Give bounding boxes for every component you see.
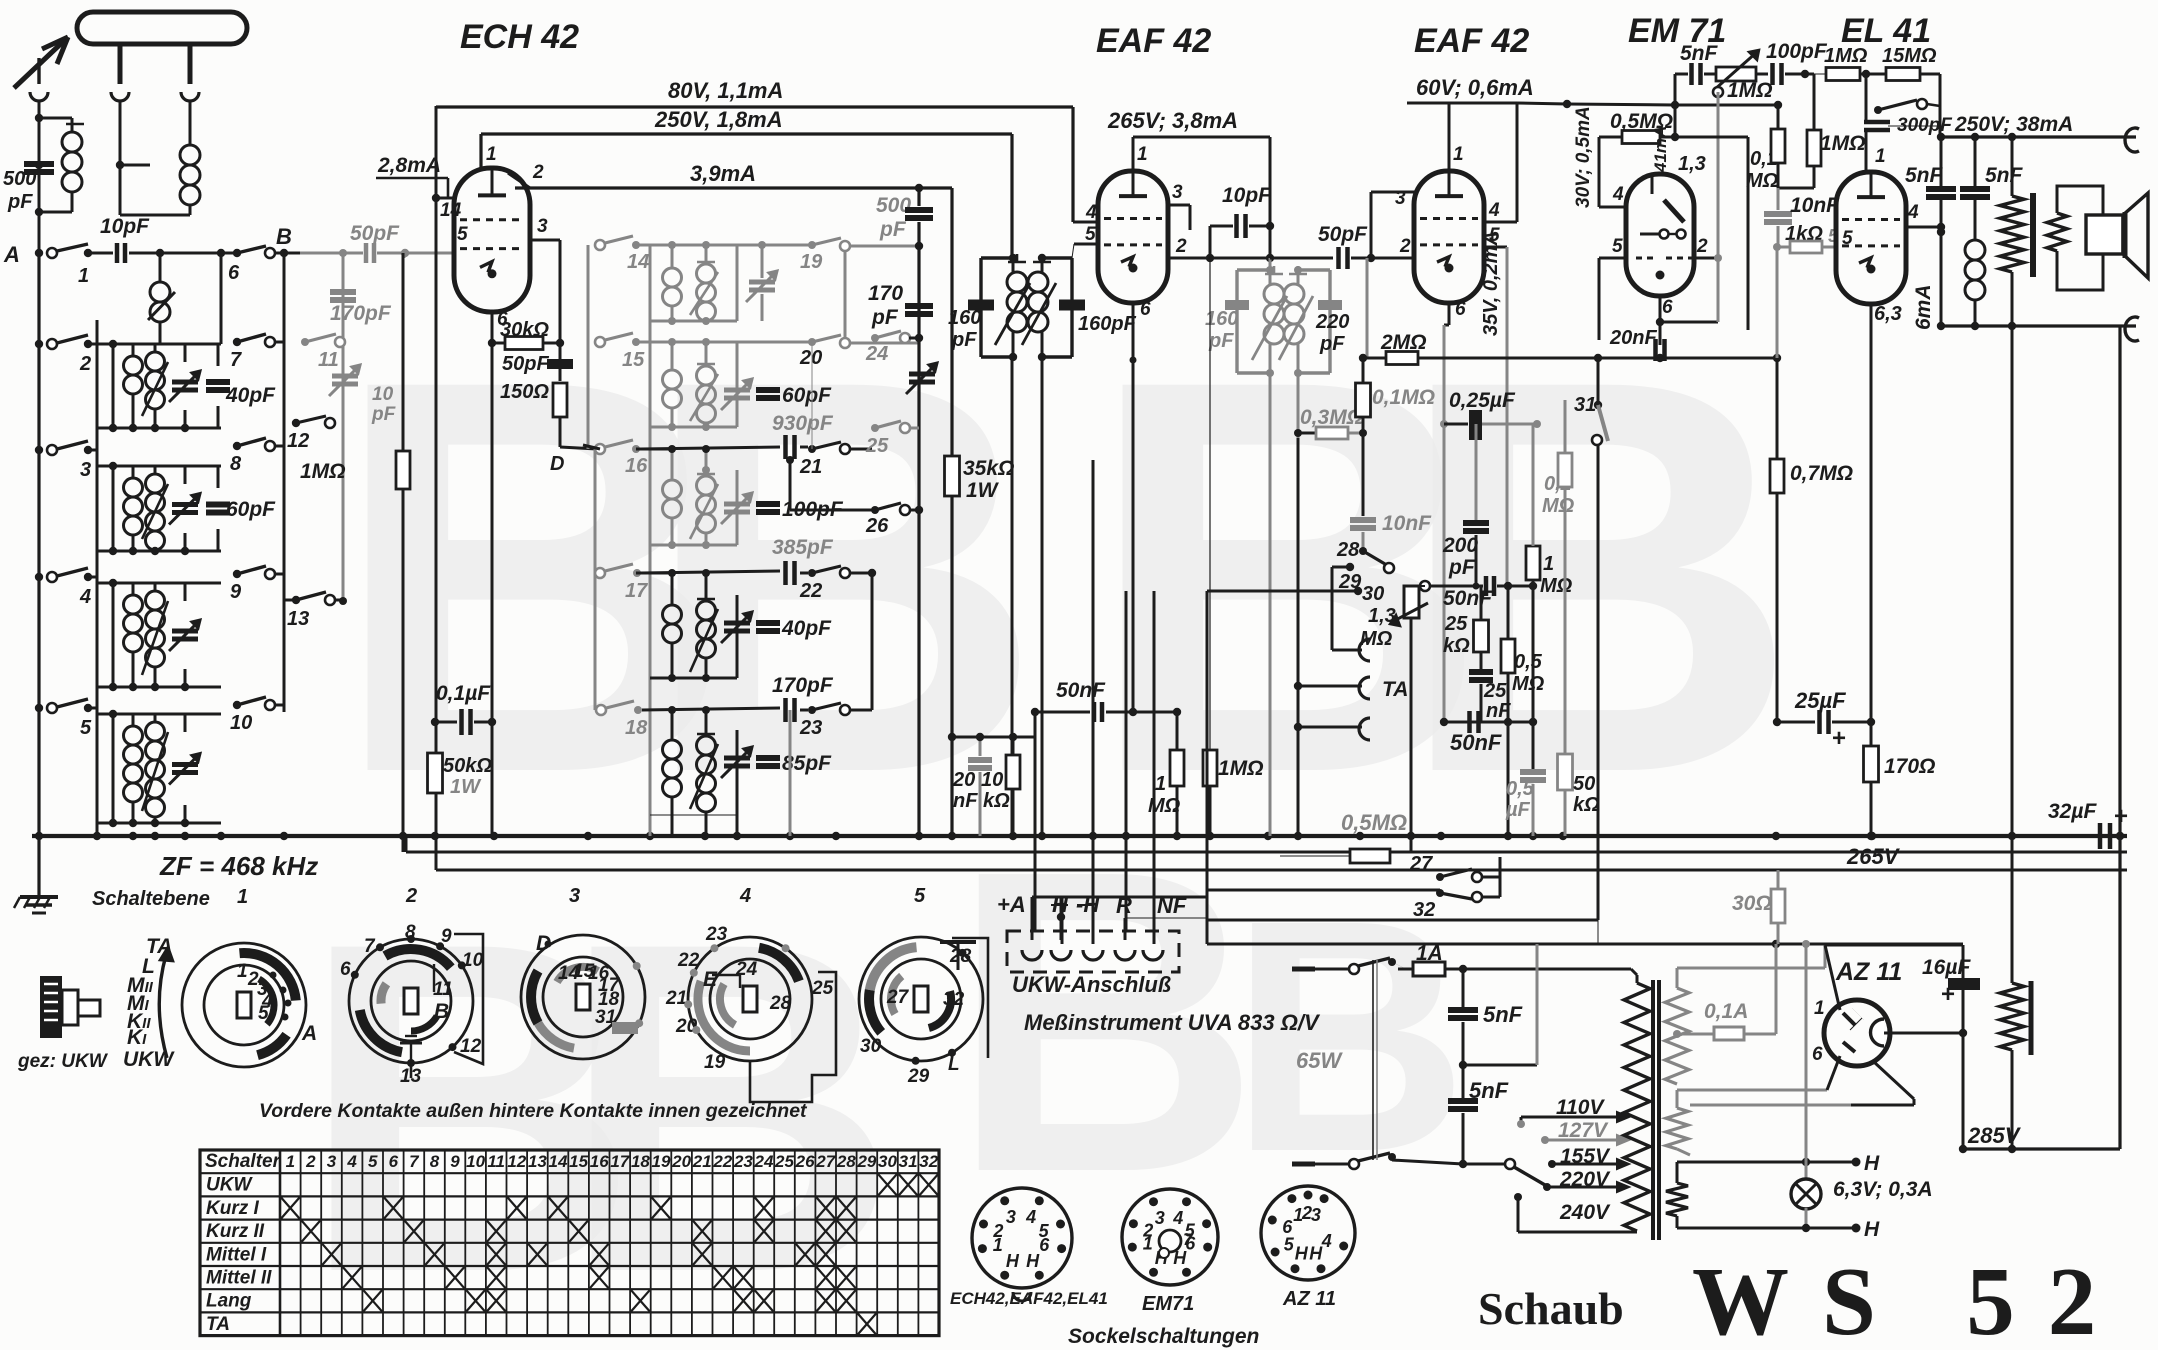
svg-text:TA: TA [206,1314,230,1335]
label Schaltebene [92,886,248,910]
svg-text:10pF: 10pF [100,215,150,238]
svg-text:ECH42,EAF42,EL41: ECH42,EAF42,EL41 [950,1289,1108,1308]
svg-text:6,3V; 0,3A: 6,3V; 0,3A [1833,1178,1933,1201]
svg-text:0,7MΩ: 0,7MΩ [1790,462,1853,485]
tube EAF42 second [1414,171,1484,303]
svg-text:32: 32 [919,1152,938,1171]
transformer IF1 [981,254,1072,361]
capacitor 50pF cathode [502,343,573,381]
node B [275,224,300,257]
coil L1 antenna [39,118,84,212]
svg-text:UKW-Anschluß: UKW-Anschluß [1012,972,1171,997]
pin 14 [432,194,462,221]
coil tone [1965,240,1985,326]
resistor 1MOhm osc [300,253,410,852]
capacitor 160pF IF1 left [948,300,994,352]
knob gez UKW [17,976,109,1072]
svg-text:H: H [1295,1244,1309,1264]
wire EM71 top row [1567,101,1777,109]
svg-text:1: 1 [1814,998,1825,1019]
label 60V 0,6mA [1416,75,1534,100]
svg-text:6: 6 [1812,1044,1823,1065]
svg-text:1MΩ: 1MΩ [1824,45,1868,67]
svg-text:4: 4 [1085,202,1097,223]
pin 5 ECH42 [457,224,468,245]
svg-text:28: 28 [836,1152,856,1171]
switch contact 4 [35,568,97,608]
svg-text:10nF: 10nF [1790,194,1840,217]
wire IF2 legs [1270,373,1298,836]
switch contact 8 [230,438,284,475]
pin 2 EAF42b [1399,236,1411,257]
transformer heater main [1666,1162,1806,1228]
resistor 0,5MOhm vert [1501,586,1545,836]
resistor 1MOhm grid [1805,45,1886,81]
svg-text:6: 6 [228,262,240,284]
capacitor 160pF IF2 [1205,300,1249,352]
svg-text:22: 22 [677,950,700,971]
tube EL41 [1836,172,1906,304]
label +A [997,892,1026,917]
trimmer padder [906,363,937,394]
svg-text:1: 1 [1155,773,1166,795]
switch contact 20 [799,251,919,369]
capacitor 5nF psu1 [1448,969,1523,1069]
svg-text:30: 30 [1362,583,1384,605]
svg-text:5: 5 [258,1003,269,1024]
coil IF module 4 [636,569,737,836]
svg-text:7: 7 [409,1152,420,1171]
resistor 1MOhm det a [1148,712,1184,836]
svg-text:14: 14 [627,251,649,273]
label 265V 3,8mA [1107,108,1238,133]
svg-text:6: 6 [340,959,351,980]
coil IF module 2 [636,338,812,547]
svg-text:220: 220 [1315,311,1349,333]
svg-text:3: 3 [327,1152,337,1171]
trimmer module1 [746,241,777,321]
capacitor 60pF IF [721,379,832,410]
svg-text:0,1µF: 0,1µF [436,682,491,705]
switch contact 14 [595,236,649,273]
svg-text:10nF: 10nF [1382,512,1432,535]
svg-text:B: B [276,224,292,249]
label ZF [159,851,318,881]
svg-text:Mittel I: Mittel I [206,1244,267,1265]
svg-text:pF: pF [7,191,33,213]
svg-text:150Ω: 150Ω [500,381,549,403]
label 65W [1296,1048,1343,1073]
svg-text:MΩ: MΩ [1512,673,1545,695]
wire 80V bus [436,78,1073,222]
capacitor 200pF [1442,424,1489,590]
svg-text:4: 4 [1172,1208,1183,1228]
svg-text:17: 17 [610,1152,630,1171]
svg-text:4: 4 [1907,202,1919,223]
pin 3 ECH42 [530,216,560,305]
capacitor 25nF [1469,669,1511,722]
band module K2 coils [97,579,221,691]
svg-text:26: 26 [865,515,889,537]
wire gray 1806 [1802,940,1810,1162]
switch contact 12 [287,416,335,452]
switch contact 15 [595,333,645,371]
pin labels AZ11 [1812,998,1825,1065]
socket AZ11 [1261,1186,1355,1280]
capacitor 500pF antenna [3,161,54,213]
switch mains bottom [1349,1153,1463,1169]
capacitor 50pF coupling2 [1270,223,1415,269]
svg-text:500: 500 [3,168,36,190]
wire mains link [1373,960,1377,1160]
lamp 6,3V [1791,1162,1933,1232]
svg-text:1W: 1W [450,776,482,798]
svg-text:1: 1 [1453,144,1464,165]
antenna symbol [14,37,68,88]
svg-text:6: 6 [1455,299,1466,320]
decor [300,263,1799,1350]
svg-text:25: 25 [811,978,834,999]
wire TA vertical [1297,438,1300,836]
switch contact 6 [228,246,275,284]
hook right top [2125,128,2139,152]
potentiometer 1,3MOhm [1360,581,1430,852]
wire A row [88,252,113,255]
rotary dial 4 [665,924,976,1102]
svg-text:10: 10 [466,1152,485,1171]
svg-text:5: 5 [1085,224,1096,245]
capacitor 170pF IF [642,674,834,722]
coil IF module 1 [636,241,812,425]
capacitor 10nF EL41 [1764,188,1840,247]
svg-text:16: 16 [590,1152,609,1171]
svg-text:30V; 0,5mA: 30V; 0,5mA [1573,106,1594,208]
wire mid verticals [1035,460,1154,944]
label band list [123,935,175,1071]
label 41mA [1651,126,1670,173]
svg-text:285V: 285V [1967,1123,2022,1148]
switch contact 17 [595,564,648,602]
svg-text:Meßinstrument UVA 833 Ω/V: Meßinstrument UVA 833 Ω/V [1024,1010,1321,1035]
capacitor 50nF lower [1440,711,1537,755]
voltage selector [1463,1159,1551,1191]
wire EM71 pin4 [1599,137,1626,207]
resistor 2MOhm [1359,331,1781,365]
switch contact 26 [786,456,923,537]
svg-text:UKW: UKW [123,1048,175,1071]
svg-text:5: 5 [368,1152,378,1171]
svg-text:240V: 240V [1559,1201,1611,1224]
switch contact 1 [47,244,92,287]
svg-text:4: 4 [1612,184,1624,205]
svg-text:60pF: 60pF [782,384,832,407]
svg-text:20nF: 20nF [1609,327,1657,349]
svg-text:H: H [1864,1218,1880,1241]
capacitor 85pF [721,747,832,778]
svg-text:30: 30 [860,1036,882,1057]
svg-text:60V; 0,6mA: 60V; 0,6mA [1416,75,1534,100]
pin 4 EAF42a [1073,202,1099,223]
wire bottom rail out [1937,322,2136,330]
svg-text:0,3MΩ: 0,3MΩ [1300,406,1363,429]
resistor 1MOhm EL41 [1805,74,1866,188]
svg-text:11: 11 [318,349,339,371]
tap 220V [1547,1168,1629,1192]
svg-text:265V: 265V [1846,844,1901,869]
svg-text:EAF 42: EAF 42 [1414,22,1529,60]
svg-text:1: 1 [1543,553,1554,575]
svg-text:L: L [948,1054,960,1075]
resistor output zigzag [2000,137,2024,326]
svg-text:12: 12 [287,430,309,452]
node 30 [1207,583,1384,605]
svg-text:50: 50 [1573,773,1595,795]
capacitor 50pF grid [350,222,400,263]
svg-text:930pF: 930pF [772,412,834,435]
EM71 internals [1636,174,1692,280]
svg-text:nF: nF [953,790,978,812]
svg-text:24: 24 [754,1152,774,1171]
svg-text:15: 15 [569,1152,588,1171]
tube label EL41 [1841,12,1931,50]
wire EM71 pin5 [1599,236,1626,340]
svg-text:1: 1 [78,265,89,287]
transformer core bar [2030,193,2036,277]
coil L2 dipole [116,100,200,215]
svg-text:29: 29 [907,1066,930,1087]
wire pin5 stub [404,253,406,258]
tube label EAF42 second [1414,22,1529,60]
svg-text:4: 4 [1488,200,1500,221]
svg-text:25: 25 [1444,613,1468,635]
svg-text:ECH 42: ECH 42 [460,18,579,56]
pin 5 EL41 [1842,228,1853,249]
label socket EM71 [1142,1293,1194,1315]
svg-text:0,1A: 0,1A [1704,1000,1748,1023]
title WS 52 [1692,1248,2129,1350]
band module Mittel coils [97,462,230,555]
svg-text:1: 1 [1137,144,1148,165]
svg-text:13: 13 [528,1152,547,1171]
svg-text:2,8mA: 2,8mA [377,154,441,177]
resistor 35kOhm 1W [945,456,1015,836]
capacitor 500pF [876,188,933,836]
wire AZ11 fil return [1690,1056,1914,1105]
capacitor 40pF IF [721,612,832,643]
svg-text:pF: pF [1208,330,1234,352]
wire 2.8mA vert [435,106,438,870]
svg-text:25: 25 [1483,680,1507,702]
svg-text:4: 4 [79,586,91,608]
switch contact 25 [812,342,919,457]
transformer IF2 [1237,258,1330,377]
dipole antenna T [77,12,247,84]
svg-text:E: E [703,968,718,991]
capacitor 0,1uF [431,682,496,735]
resistor 50kOhm 1W [428,753,493,798]
hook TA lower [1294,718,1370,740]
svg-text:0,5: 0,5 [1514,651,1543,673]
tube label EM71 [1628,12,1726,50]
capacitor 20nF det [952,737,992,836]
rotary dial 1 [182,943,317,1067]
transformer heater AZ11 [1666,1090,1827,1155]
svg-text:25: 25 [774,1152,794,1171]
svg-text:50pF: 50pF [350,222,400,245]
dipole hook right [181,92,199,101]
wire 250V bus right [1937,113,2136,141]
label Messinstrument [1024,1010,1321,1035]
svg-text:29: 29 [856,1152,876,1171]
wire 50pF to tube [377,249,452,257]
wire pin3 join [559,240,562,343]
svg-text:27: 27 [1409,853,1433,875]
wire 60V line [1517,100,1571,108]
svg-text:5nF: 5nF [1469,1078,1509,1103]
svg-text:25µF: 25µF [1794,688,1846,713]
resistor 0,1MOhm upper [1356,358,1436,516]
svg-text:D: D [550,453,564,475]
label ebene 4 [739,885,751,907]
wire left vertical A [37,253,40,836]
capacitor 10pF coupling [1210,184,1274,258]
svg-text:30Ω: 30Ω [1732,892,1772,915]
pin 6,3 EL41 [1871,303,1902,745]
svg-text:Kurz II: Kurz II [206,1221,265,1242]
svg-text:3,9mA: 3,9mA [690,161,756,186]
transformer HV secondary [1665,945,1825,1084]
svg-text:11: 11 [487,1152,505,1171]
UKW terminals [1022,950,1163,960]
svg-text:9: 9 [450,1152,460,1171]
svg-text:6: 6 [1039,1235,1050,1255]
svg-text:2: 2 [1696,236,1708,257]
svg-text:250V; 38mA: 250V; 38mA [1954,113,2073,136]
pin 2 EAF42a [1168,236,1274,262]
wire left vertical 2 [96,320,99,836]
label Sockelschaltungen [1068,1325,1259,1348]
speaker frame [2057,186,2103,290]
resistor 10kOhm det [948,733,1035,836]
svg-text:gez: UKW: gez: UKW [17,1051,109,1072]
pin 6 EAF42a [1129,299,1151,716]
pin 5 EAF42b [1484,225,1507,586]
svg-text:265V; 3,8mA: 265V; 3,8mA [1107,108,1238,133]
wire to osc coil node [129,249,233,257]
wire +A up [1032,897,1207,940]
tap 127V [1541,1119,1629,1145]
svg-text:3: 3 [80,459,91,481]
svg-text:pF: pF [951,329,977,351]
svg-text:30: 30 [878,1152,897,1171]
svg-text:32µF: 32µF [2048,800,2097,823]
wire IF1 feed [1012,357,1042,836]
svg-text:Sockelschaltungen: Sockelschaltungen [1068,1325,1259,1348]
tap 240V [1514,1193,1637,1232]
svg-text:7: 7 [364,936,376,957]
svg-text:3: 3 [1155,1208,1165,1228]
capacitor 5nF EM71 [1675,42,1719,105]
speaker [2086,193,2148,278]
rotary dial 5 [859,937,988,1087]
terminal H upper [1802,1152,1880,1175]
resistor bleeder [2000,836,2031,1149]
band module Kurz coils [97,340,230,432]
switch contact 28 [1336,539,1394,573]
wire cathode vert [491,343,494,836]
svg-text:170pF: 170pF [330,302,392,325]
svg-text:+: + [1941,981,1955,1008]
capacitor 5nF out1 [1905,137,1956,326]
capacitor 300pF [1864,110,1953,173]
svg-text:6: 6 [1662,297,1673,318]
svg-text:50pF: 50pF [1318,223,1368,246]
pin 4 EL41 [1906,202,1945,231]
capacitor 930pF [641,412,834,459]
capacitor 16uF [1922,945,1980,1149]
transformer core [1653,980,1659,1240]
label 35V 0,2mA [1480,231,1502,336]
svg-text:8: 8 [430,1152,440,1171]
svg-text:pF: pF [1319,333,1345,355]
svg-text:1: 1 [237,961,248,982]
resistor 0,2MOhm [1542,400,1575,755]
svg-text:32: 32 [943,989,965,1010]
band module Lang coils [97,710,221,827]
wire 5nF tap [1463,944,1537,1065]
wire bank left rail [588,245,595,710]
resistor 0,3MOhm [1294,406,1367,439]
svg-text:3: 3 [1172,182,1183,203]
svg-text:100pF: 100pF [1766,40,1828,63]
switch contact 10 [230,697,284,734]
label 2,8mA [376,154,448,198]
svg-text:H: H [1026,1251,1040,1271]
wire gray vertical 343 [339,249,347,605]
svg-text:23: 23 [799,717,822,739]
switch contact 18 [596,701,648,739]
svg-text:5: 5 [1842,228,1853,249]
svg-text:WS 52: WS 52 [1692,1248,2129,1350]
svg-text:13: 13 [287,608,309,630]
label ebene 3 [569,885,580,907]
svg-text:60pF: 60pF [226,498,276,521]
svg-text:5: 5 [914,885,926,907]
resistor 15MOhm [1882,45,1940,137]
node A [3,242,43,267]
wire D row [550,447,597,475]
mains plug top [1292,967,1348,972]
label ebene 5 [914,885,926,907]
wire R up [1125,918,1207,940]
svg-text:pF: pF [371,404,397,425]
resistor 25kOhm [1443,586,1489,670]
svg-text:Schalter: Schalter [205,1151,282,1172]
svg-text:18: 18 [631,1152,650,1171]
label R [1116,893,1132,918]
capacitor 0,5uF [1505,722,1546,836]
wire module legs [97,249,225,466]
wire AZ11 plate rail [1825,945,1963,1010]
label 6mA [1912,284,1935,330]
switch contact 19 [800,238,923,273]
svg-text:0,5: 0,5 [1506,778,1535,800]
switch contact 11 [301,334,345,371]
switch contact 9 [230,566,284,603]
wire bus 870 265V [436,836,2127,870]
svg-text:50nF: 50nF [1056,679,1106,702]
svg-text:20: 20 [675,1016,698,1037]
